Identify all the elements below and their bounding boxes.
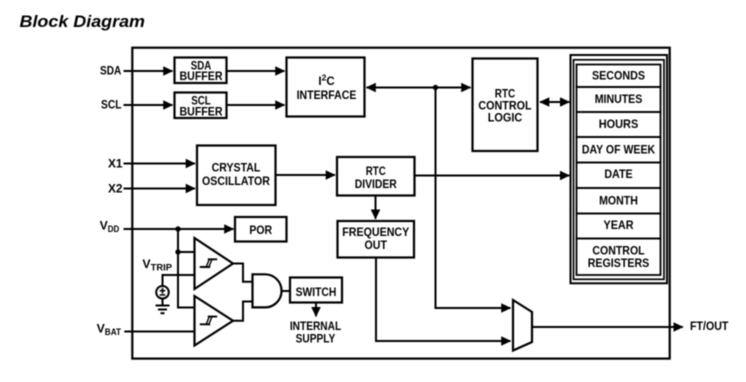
wire X1 input — [124, 163, 196, 165]
wire source to ground — [162, 299, 164, 306]
wire crystal oscillator to RTC divider — [276, 174, 336, 176]
wire VTRIP source to upper comparator minus input — [163, 275, 195, 286]
register cell SECONDS — [577, 65, 661, 88]
svg-text:LOGIC: LOGIC — [488, 112, 523, 124]
svg-text:SUPPLY: SUPPLY — [296, 334, 336, 346]
block RTC DIVIDER — [337, 157, 415, 196]
block SCL BUFFER — [175, 93, 227, 119]
svg-text:HOURS: HOURS — [599, 119, 639, 131]
svg-text:X2: X2 — [108, 181, 123, 195]
svg-text:VDD: VDD — [100, 219, 120, 235]
register cell DATE — [577, 163, 661, 189]
wire upper comparator output to AND gate — [233, 264, 253, 282]
register cell HOURS — [577, 112, 661, 137]
register cell YEAR — [577, 214, 661, 239]
svg-text:X1: X1 — [108, 156, 123, 170]
wire RTC divider to registers (DATE level) — [415, 175, 570, 177]
register cell CONTROL REGISTERS — [577, 239, 661, 276]
hysteresis symbol upper comparator — [200, 259, 217, 268]
wire switch to internal supply — [315, 303, 317, 317]
wire I2C interface to RTC control logic (bidirectional) — [367, 87, 471, 89]
svg-text:VTRIP: VTRIP — [142, 257, 172, 273]
wire VDD rail down to lower comparator plus input — [178, 229, 195, 308]
block POR — [235, 217, 287, 242]
block FREQUENCY OUT — [338, 221, 415, 258]
plus-minus symbol inside source — [160, 288, 166, 295]
block SDA BUFFER — [175, 58, 227, 84]
svg-text:YEAR: YEAR — [604, 220, 635, 232]
svg-text:DATE: DATE — [604, 169, 633, 181]
register cell MONTH — [577, 188, 661, 214]
svg-text:REGISTERS: REGISTERS — [588, 258, 650, 270]
register file inner frame — [574, 60, 665, 279]
hysteresis symbol lower comparator — [200, 316, 217, 325]
svg-text:CONTROL: CONTROL — [478, 101, 531, 113]
svg-text:INTERFACE: INTERFACE — [297, 90, 357, 102]
svg-text:SWITCH: SWITCH — [296, 287, 337, 299]
mux output selector — [513, 300, 532, 351]
block RTC CONTROL LOGIC — [473, 59, 538, 152]
wire VDD rail branch to upper comparator plus input — [178, 251, 195, 253]
svg-text:DAY OF WEEK: DAY OF WEEK — [582, 144, 656, 156]
wire SDA input — [124, 70, 173, 72]
svg-text:RTC: RTC — [366, 166, 386, 178]
svg-text:BUFFER: BUFFER — [180, 71, 224, 83]
wire X2 input — [124, 188, 196, 190]
comparator upper (VDD vs VTRIP) — [195, 238, 234, 289]
svg-text:POR: POR — [249, 225, 272, 237]
wire frequency out to mux lower input — [376, 258, 511, 342]
register cell DAY OF WEEK — [577, 137, 661, 163]
svg-text:SECONDS: SECONDS — [592, 70, 645, 82]
voltage source VTRIP circle — [156, 286, 169, 299]
junction dot VDD rail to upper comparator — [175, 249, 180, 254]
svg-text:I2C: I2C — [318, 72, 334, 88]
svg-text:OSCILLATOR: OSCILLATOR — [202, 176, 271, 188]
chip boundary border — [132, 48, 669, 359]
junction dot I2C bus node — [433, 85, 438, 90]
svg-text:BUFFER: BUFFER — [180, 107, 224, 119]
wire I2C bus node to mux upper input — [436, 88, 511, 309]
wire SCL buffer to I2C interface — [227, 104, 285, 106]
AND gate — [253, 274, 282, 307]
block I2C INTERFACE — [287, 58, 365, 117]
svg-text:CONTROL: CONTROL — [592, 246, 644, 258]
wire SDA buffer to I2C interface — [227, 70, 285, 72]
wire RTC control logic to registers (bidirectional) — [540, 101, 569, 103]
wire SCL input — [124, 104, 173, 106]
svg-text:SDA: SDA — [100, 64, 121, 78]
comparator lower (VDD vs VBAT) — [195, 296, 234, 346]
svg-text:FT/OUT: FT/OUT — [690, 319, 729, 333]
svg-text:MINUTES: MINUTES — [595, 94, 643, 106]
wire RTC divider down to frequency out — [375, 196, 377, 219]
svg-text:VBAT: VBAT — [97, 321, 122, 337]
register file outer frame — [571, 55, 668, 283]
svg-text:DIVIDER: DIVIDER — [355, 179, 398, 191]
svg-text:RTC: RTC — [495, 89, 516, 101]
svg-text:INTERNAL: INTERNAL — [290, 321, 341, 333]
svg-text:MONTH: MONTH — [599, 195, 638, 207]
wire VDD input to POR — [124, 228, 234, 230]
register cell MINUTES — [577, 87, 661, 112]
svg-text:OUT: OUT — [365, 240, 387, 252]
svg-text:SCL: SCL — [101, 98, 122, 112]
svg-text:Block Diagram: Block Diagram — [20, 12, 146, 31]
wire mux output to FT/OUT pin — [532, 326, 683, 328]
ground symbol — [156, 306, 170, 314]
block SWITCH — [290, 278, 342, 303]
wire AND gate to switch — [282, 290, 291, 292]
wire lower comparator output to AND gate — [233, 302, 253, 321]
svg-text:FREQUENCY: FREQUENCY — [342, 227, 409, 239]
wire VBAT input to lower comparator minus input — [124, 331, 194, 333]
block CRYSTAL OSCILLATOR — [197, 146, 276, 206]
svg-text:CRYSTAL: CRYSTAL — [212, 162, 261, 174]
junction dot VDD node — [175, 226, 180, 231]
